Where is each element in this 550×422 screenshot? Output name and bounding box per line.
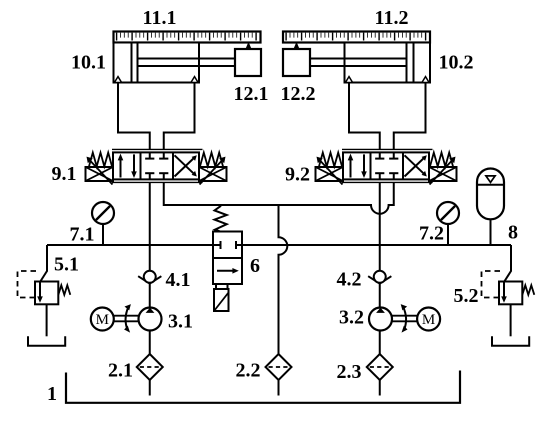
svg-text:M: M [422, 312, 435, 328]
wire cylinder 10.2 port B to valve [394, 83, 426, 150]
valve 9.2 blocked port stub x=394 top [393, 152, 395, 158]
svg-text:10.2: 10.2 [439, 52, 474, 74]
directional valve 9.2 [316, 149, 457, 184]
valve 6 actuator [214, 284, 229, 311]
svg-text:12.2: 12.2 [281, 83, 316, 105]
valve 9.1 proportional line bottom [112, 181, 203, 183]
valve 9.1 blocked port stub x=164 top [163, 152, 165, 158]
wire T line down to filter 2.2 with jump over pressure bus [279, 205, 288, 354]
valve 9.1 left proportional arrow [90, 161, 113, 185]
valve 9.2 body [343, 152, 429, 179]
svg-text:7.2: 7.2 [419, 223, 444, 245]
pressure gauge 7.2 [437, 202, 459, 224]
wire accumulator 8 to bus [490, 219, 492, 245]
svg-text:7.1: 7.1 [70, 224, 95, 246]
valve 9.2 blocked port stub x=380 bottom [379, 173, 381, 179]
wire filter 2.3 to tank [379, 380, 381, 396]
filter 2.1 [137, 354, 163, 380]
valve 9.2 blocked port stub x=380 top [379, 152, 381, 158]
svg-text:3.1: 3.1 [168, 311, 193, 333]
valve 9.2 proportional line bottom [342, 181, 433, 183]
valve 6 spring [215, 206, 227, 232]
valve 9.1 left box up arrow [120, 158, 122, 178]
wire filter 2.1 to tank [149, 380, 151, 396]
cylinder 10.1 port arrow left [114, 77, 121, 83]
svg-text:2.2: 2.2 [236, 360, 261, 382]
relief valve 5.1 [18, 271, 71, 304]
piston rod left [138, 59, 236, 67]
valve 9.2 left box down arrow [363, 154, 365, 173]
valve 9.2 left proportional solenoid [316, 167, 344, 181]
tank symbol under relief valve 5.2 [492, 336, 529, 346]
valve 9.1 right box crossed arrows [175, 157, 196, 177]
wire relief valve 5.1 to tank [46, 304, 48, 336]
rotation arrow of pump 3.1 [124, 304, 131, 333]
wire bus down to relief valve 5.1 [46, 245, 48, 272]
cylinder 10.2 [345, 43, 431, 83]
pump 3.1 drive shaft [114, 316, 139, 322]
valve 9.1 left box down arrow [133, 154, 135, 173]
valve 9.2 right box crossed arrows [405, 157, 426, 177]
rotation arrow of pump 3.2 [401, 304, 408, 333]
valve 9.2 proportional line top [342, 148, 433, 150]
valve 9.1 right proportional solenoid [199, 167, 227, 181]
wire P line valve 9.1 to pump 3.1 [149, 182, 151, 307]
valve 9.2 left box up arrow [350, 158, 352, 178]
valve 9.2 right proportional solenoid [429, 167, 457, 181]
valve 9.1 proportional line top [112, 148, 203, 150]
valve 9.1 right proportional arrow [200, 161, 223, 185]
check valve 4.2 [368, 271, 391, 284]
svg-text:3.2: 3.2 [339, 307, 364, 329]
cylinder 10.1 [114, 43, 200, 83]
valve 9.1 left proportional solenoid [86, 167, 114, 181]
valve 9.1 blocked port stub x=150 bottom [149, 173, 151, 179]
accumulator 8 [477, 169, 504, 220]
svg-text:8: 8 [508, 222, 518, 244]
tank symbol under relief valve 5.1 [28, 336, 65, 346]
svg-text:10.1: 10.1 [71, 52, 106, 74]
cylinder 10.2 port arrow left [345, 77, 352, 83]
svg-text:5.1: 5.1 [54, 254, 79, 276]
wire filter 2.2 to tank [278, 380, 280, 396]
svg-text:6: 6 [250, 255, 260, 277]
wire cylinder 10.1 port B to valve [164, 83, 195, 150]
wire gauge 7.1 to bus [102, 224, 104, 245]
valve 9.1 left return spring [89, 153, 112, 167]
pointer arrow from 12.1 to scale [246, 42, 251, 49]
wire cylinder 10.1 port A to valve [118, 83, 150, 150]
svg-text:5.2: 5.2 [454, 285, 479, 307]
filter 2.3 [367, 354, 393, 380]
valve 9.2 right return spring [430, 153, 453, 167]
wire P line valve 9.2 to pump 3.2 [379, 182, 381, 307]
wire bus down to relief valve 5.2 [510, 245, 512, 272]
valve 9.2 right proportional arrow [430, 161, 453, 185]
wire relief valve 5.2 to tank [510, 304, 512, 336]
scale ruler 11.1 [114, 32, 261, 43]
valve 9.2 blocked port stub x=394 bottom [393, 173, 395, 179]
check valve 4.1 [138, 271, 161, 284]
wire pressure bus right segment [242, 244, 511, 246]
valve 6 upper box closed position [213, 232, 242, 259]
directional valve 9.1 [86, 149, 227, 184]
scale ruler 11.2 [283, 32, 430, 43]
valve 9.1 right return spring [200, 153, 223, 167]
wire pressure bus left segment [47, 244, 213, 246]
wire pump 3.2 to filter 2.3 [379, 331, 381, 355]
pointer arrow from 12.2 to scale [294, 42, 299, 49]
svg-text:1: 1 [47, 383, 57, 405]
wire gauge 7.2 to bus [447, 224, 449, 245]
pressure gauge 7.1 [92, 202, 114, 224]
pump 3.1 [139, 308, 162, 331]
svg-text:9.2: 9.2 [285, 164, 310, 186]
svg-text:11.2: 11.2 [375, 7, 409, 29]
svg-text:2.3: 2.3 [337, 361, 362, 383]
motor M of pump 3.1 [91, 308, 114, 331]
filter 2.2 [266, 354, 292, 380]
svg-text:4.2: 4.2 [337, 269, 362, 291]
position sensor block 12.2 [283, 49, 310, 76]
piston rod right [310, 59, 407, 67]
wire cylinder 10.2 port A to valve [349, 83, 380, 150]
svg-text:M: M [96, 312, 109, 328]
valve 9.1 body [113, 152, 199, 179]
svg-text:9.1: 9.1 [52, 163, 77, 185]
valve 9.2 left return spring [319, 153, 342, 167]
svg-text:11.1: 11.1 [143, 7, 177, 29]
relief valve 5.2 [482, 271, 535, 304]
valve 9.2 left proportional arrow [320, 161, 343, 185]
valve 9.1 blocked port stub x=150 top [149, 152, 151, 158]
pump 3.2 drive shaft [392, 316, 417, 322]
cylinder 10.1 port arrow right [191, 77, 198, 83]
wire T line valve 9.1 to valve 9.2 with jump over pump 3.2 line [164, 182, 394, 213]
tank 1 [66, 371, 460, 403]
cylinder 10.2 port arrow right [422, 77, 429, 83]
pump 3.2 [369, 308, 392, 331]
valve 6 lower box flow position [213, 258, 242, 284]
svg-text:12.1: 12.1 [234, 83, 269, 105]
motor M of pump 3.2 [417, 308, 440, 331]
wire pump 3.1 to filter 2.1 [149, 331, 151, 355]
position sensor block 12.1 [235, 49, 261, 76]
svg-text:4.1: 4.1 [166, 269, 191, 291]
svg-text:2.1: 2.1 [108, 360, 133, 382]
valve 9.1 blocked port stub x=164 bottom [163, 173, 165, 179]
